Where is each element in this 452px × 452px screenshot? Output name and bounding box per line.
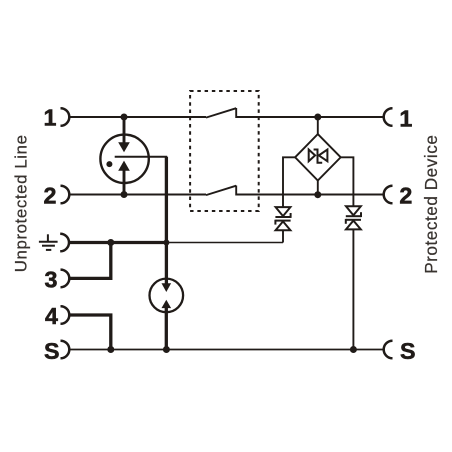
svg-text:S: S: [44, 338, 60, 364]
terminal 4 socket symbol: [61, 306, 70, 324]
svg-text:3: 3: [45, 267, 58, 293]
wire ground line (thick segment): [69, 241, 166, 244]
terminal 1 (left) socket symbol: [61, 108, 70, 126]
junction node ground / terminal 3: [107, 239, 114, 246]
wire terminal 3 to ground node: [69, 243, 110, 279]
junction node line2 / diode bridge: [314, 191, 321, 198]
wire diode bridge top: [317, 117, 319, 135]
switch contact (line 2): [206, 186, 236, 196]
terminal 3 socket symbol: [61, 270, 70, 288]
junction node S line / right TVS: [350, 346, 357, 353]
junction node ground line / electrode wire: [163, 240, 169, 246]
svg-text:2: 2: [399, 183, 412, 209]
svg-text:2: 2: [44, 183, 57, 209]
bidirectional suppressor diode symbol: [309, 150, 328, 163]
wire diode bridge bottom: [317, 180, 319, 195]
svg-text:Unprotected Line: Unprotected Line: [11, 134, 30, 272]
junction node line1 / diode bridge: [314, 114, 321, 121]
wire line 1 (left segment): [69, 116, 206, 118]
terminal 2 (right) socket symbol: [384, 186, 393, 204]
terminal S (left) socket symbol: [61, 341, 70, 359]
wire S line: [69, 349, 383, 351]
svg-text:4: 4: [45, 303, 58, 329]
terminal S (right) socket symbol: [384, 341, 393, 359]
junction node line1 / arrester: [121, 114, 128, 121]
terminal 2 (left) socket symbol: [61, 186, 70, 204]
wire ground line (thin segment to left TVS): [166, 242, 283, 244]
terminal 1 (right) socket symbol: [384, 108, 393, 126]
junction node S line / lower arrester: [163, 346, 170, 353]
earth ground symbol: [39, 234, 58, 250]
gas discharge tube (2-electrode arrester, lower): [150, 279, 184, 350]
TVS suppressor diode (right): [346, 206, 361, 229]
svg-text:1: 1: [44, 105, 57, 131]
wire terminal 4 down to S line: [69, 315, 110, 350]
wire line 1 (right segment): [236, 116, 383, 118]
wire arrester third electrode (down to ground node): [165, 157, 168, 243]
wire line 2 (right segment): [236, 194, 383, 196]
switch contact (line 1): [206, 108, 236, 118]
ground terminal socket symbol: [60, 234, 69, 252]
junction node S line / terminal 4: [107, 346, 114, 353]
wire right TVS to S line: [352, 229, 354, 349]
wire electrode to lower arrester: [165, 243, 168, 281]
svg-text:Protected Device: Protected Device: [421, 135, 441, 274]
relay switch enclosure (dashed box): [190, 91, 259, 211]
svg-text:1: 1: [399, 105, 412, 131]
diode bridge diamond: [295, 134, 341, 180]
wire bridge right arm: [341, 157, 354, 206]
gas discharge tube (3-electrode arrester): [100, 117, 167, 195]
wire left TVS to ground line: [282, 230, 284, 242]
junction node line2 / arrester: [121, 191, 128, 198]
TVS suppressor diode (left): [275, 207, 290, 230]
svg-text:S: S: [400, 338, 416, 364]
wire bridge left arm: [283, 157, 295, 207]
wire line 2 (left segment): [69, 194, 206, 196]
